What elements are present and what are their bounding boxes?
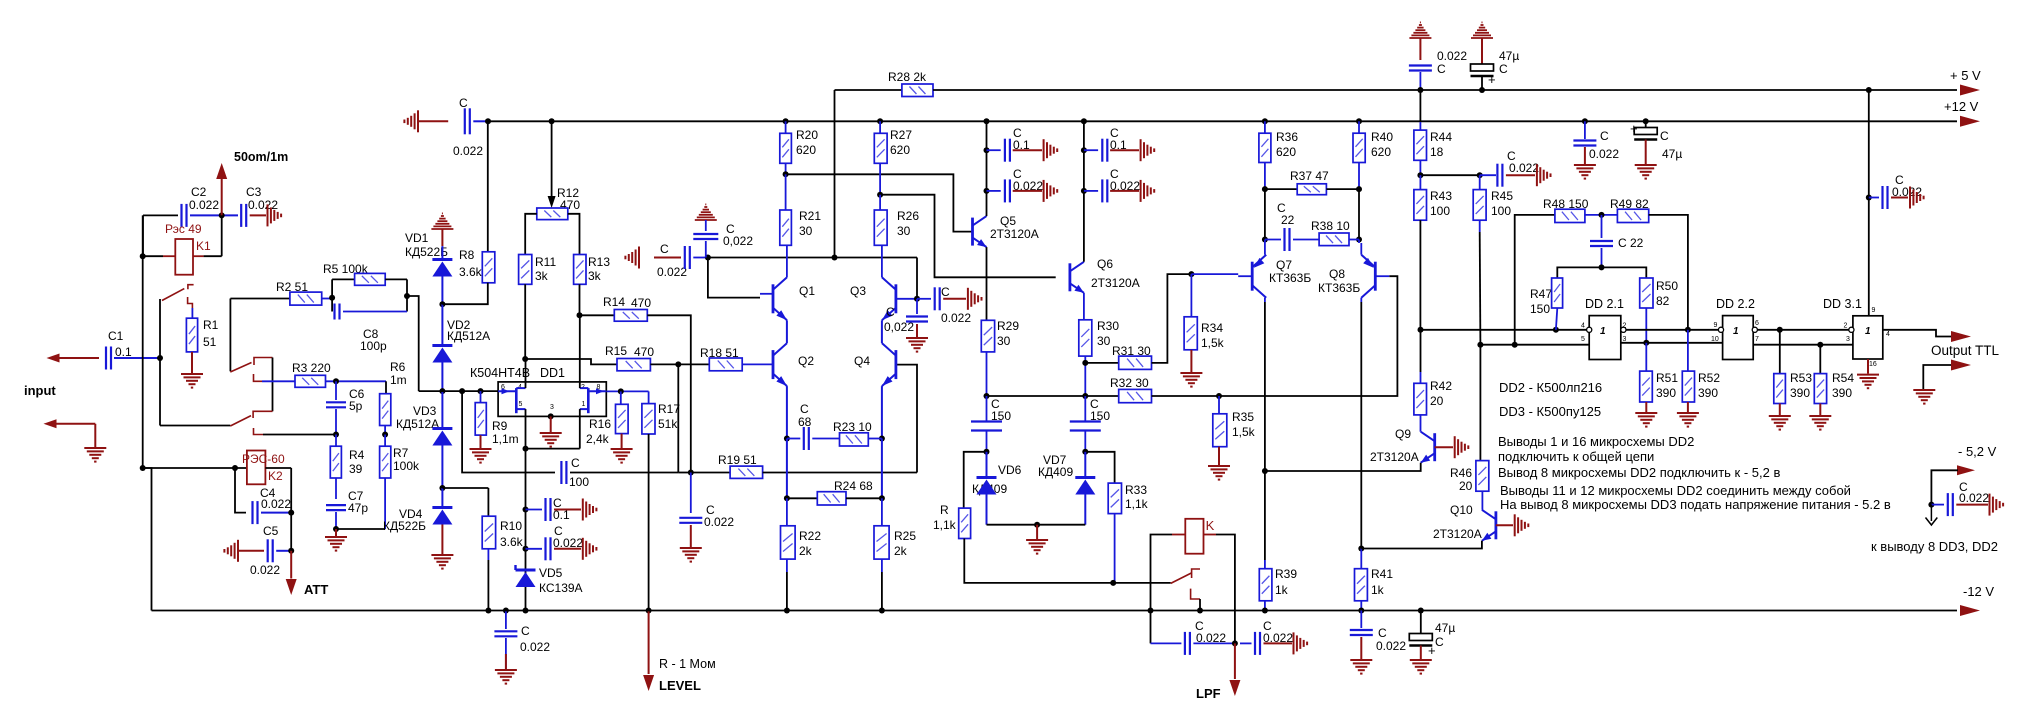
wire: [1264, 189, 1266, 239]
wire R6 top lead: [385, 381, 387, 393]
switch K1 lower contact: [188, 297, 193, 308]
svg-text:VD6: VD6: [998, 463, 1022, 477]
svg-text:R6: R6: [390, 360, 406, 374]
wire R8 top: [487, 121, 489, 252]
wire: [879, 163, 881, 194]
junction R39 bus: [1262, 608, 1268, 614]
wire R46 top: [1479, 345, 1481, 461]
svg-text:0,022: 0,022: [723, 234, 753, 248]
wire: [1190, 350, 1192, 372]
wire R8 bottom: [442, 283, 487, 304]
wire: [1265, 239, 1281, 241]
junction K switch bus: [1197, 608, 1203, 614]
switch K2 mid contact: [254, 374, 263, 381]
svg-text:30: 30: [799, 224, 813, 238]
wire: [276, 550, 291, 552]
shield ground C0.022 q5: [1044, 180, 1058, 202]
node C0.1 tap: [523, 507, 529, 513]
resistor R6: [380, 394, 391, 426]
node R11/R15: [522, 356, 528, 362]
svg-text:R15: R15: [605, 344, 627, 358]
transistor DD1 right FET: [580, 388, 606, 413]
wire: [786, 439, 788, 499]
node R9 top: [478, 388, 484, 394]
wire: [385, 278, 407, 280]
svg-text:C: C: [660, 242, 669, 256]
wire R20 node to Q5 base: [786, 174, 973, 231]
svg-text:51: 51: [203, 335, 217, 349]
svg-text:C: C: [1435, 635, 1444, 649]
svg-text:R50: R50: [1656, 279, 1678, 293]
wire Q5 emitter down: [986, 247, 988, 320]
svg-text:2T3120A: 2T3120A: [990, 227, 1039, 241]
wire: [1360, 637, 1362, 659]
transistor DD1 left FET: [498, 388, 525, 413]
svg-text:390: 390: [1832, 386, 1852, 400]
node Q7/R39/Q9 line: [1262, 468, 1268, 474]
svg-text:Q7: Q7: [1276, 258, 1292, 272]
diode VD7: [1075, 478, 1095, 495]
wire R15 node down: [677, 364, 679, 472]
capacitor C 0.022 top: [1409, 66, 1432, 71]
wire left vertical C2-K2: [142, 215, 144, 468]
junction Q6 rail: [1081, 118, 1087, 124]
arrow to DD supply: [1926, 505, 1938, 525]
ground below 47u: [1410, 660, 1432, 674]
shield ground C0.022 q6: [1141, 180, 1155, 202]
node R25/R24: [879, 495, 885, 501]
svg-text:5: 5: [519, 401, 523, 408]
wire: [1556, 308, 1557, 330]
-12V bottom bus: [152, 610, 1958, 612]
svg-text:R26: R26: [897, 209, 919, 223]
transistor Q1: [773, 277, 787, 320]
wire: [621, 434, 623, 448]
svg-text:1k: 1k: [1371, 583, 1385, 597]
wire: [1645, 121, 1647, 127]
svg-text:100: 100: [569, 475, 589, 489]
svg-text:0.022: 0.022: [704, 515, 734, 529]
capacitor C 0.022 below R41: [1350, 630, 1373, 635]
wire: [787, 497, 817, 499]
wire: [881, 439, 883, 499]
ground below R9: [470, 449, 492, 463]
wire Q4 base feed: [896, 365, 917, 473]
node R34 top: [1188, 271, 1194, 277]
ground below R53: [1769, 416, 1791, 430]
junction top cap +5V: [1417, 87, 1423, 93]
svg-text:3: 3: [550, 404, 554, 411]
wire R12 to R11: [525, 214, 537, 255]
arrowhead R12 tap: [548, 196, 556, 208]
wire: [1013, 190, 1042, 192]
wire to Q3 base node: [916, 258, 918, 299]
svg-text:C: C: [1378, 626, 1387, 640]
resistor R54: [1814, 374, 1826, 404]
wire: [690, 525, 692, 547]
wire: [526, 548, 543, 550]
node Q2 emitter/C68: [784, 436, 790, 442]
wire Q7 base: [1238, 275, 1252, 277]
off-page arrow input: [44, 419, 57, 428]
wire R18 to Q2 base: [742, 363, 773, 365]
wire: [114, 357, 160, 359]
wire: [1645, 343, 1647, 371]
wire Q9 emitter line: [1265, 463, 1421, 471]
svg-text:6: 6: [1755, 320, 1759, 327]
node C0.022 tap: [523, 546, 529, 552]
resistor R2: [290, 292, 322, 305]
svg-text:2T3120A: 2T3120A: [1433, 527, 1482, 541]
ground below R34: [1180, 373, 1202, 387]
wire Q10 base: [1496, 524, 1513, 526]
capacitor C 0.022 q6: [1102, 179, 1107, 202]
wire: [879, 195, 881, 210]
wire: [1515, 344, 1590, 346]
svg-text:620: 620: [1371, 145, 1391, 159]
wire to R3: [262, 380, 295, 382]
wire: [620, 391, 622, 404]
resistor R15: [617, 359, 650, 371]
svg-text:0.022: 0.022: [250, 563, 280, 577]
wire: [705, 220, 707, 231]
junction 47u rail2: [1643, 118, 1649, 124]
junction C 0.022 rail2: [1582, 118, 1588, 124]
svg-text:C: C: [941, 285, 950, 299]
wire to R2: [230, 298, 290, 300]
junction R53: [1777, 327, 1783, 333]
node VD7 top: [1082, 449, 1088, 455]
wire: [678, 472, 691, 474]
wire: [1479, 175, 1481, 189]
wire DD1 pin1 down: [579, 409, 581, 449]
svg-text:620: 620: [890, 143, 910, 157]
wire pin7 line: [1753, 344, 1853, 346]
svg-text:R43: R43: [1430, 189, 1452, 203]
svg-text:1: 1: [1733, 326, 1739, 337]
svg-text:1: 1: [1600, 326, 1606, 337]
svg-text:C: C: [459, 96, 468, 110]
svg-text:390: 390: [1656, 386, 1676, 400]
wire: [335, 381, 337, 400]
capacitor 47µ below bus: [1409, 634, 1432, 646]
svg-text:КД522Б: КД522Б: [383, 519, 426, 533]
wire R27 node to Q6 base: [880, 195, 1056, 278]
resistor R 1,1k: [959, 508, 971, 538]
svg-text:C: C: [800, 402, 809, 416]
svg-text:1: 1: [582, 401, 586, 408]
wire: [94, 424, 96, 447]
switch K2 armature upper: [230, 363, 251, 373]
wire: [441, 363, 443, 392]
capacitor C 0,022 cone: [693, 234, 718, 239]
wire: [554, 548, 581, 550]
wire: [785, 121, 787, 133]
resistor R30: [1079, 320, 1092, 356]
wire: [193, 255, 204, 257]
wire K left: [1151, 535, 1173, 644]
svg-text:+: +: [1428, 643, 1436, 658]
resistor R12: [537, 208, 568, 220]
wire: [1360, 549, 1362, 569]
wire: [1585, 214, 1618, 216]
resistor R32: [1119, 389, 1152, 402]
node R22/R24: [784, 495, 790, 501]
wire Q2 emitter down: [786, 386, 788, 438]
wire Q7 collector stub: [1264, 298, 1266, 302]
switch K lower contact: [1191, 589, 1200, 599]
ground below bus cap left: [495, 670, 517, 684]
resistor R10: [482, 516, 495, 549]
transistor Q9: [1421, 432, 1435, 463]
wire: [1358, 121, 1360, 133]
wire: [987, 190, 1001, 192]
wire: [335, 409, 337, 435]
ground DD1 pin3: [540, 433, 562, 447]
wire to R 1,1k: [964, 452, 987, 508]
wire to R39: [1264, 471, 1266, 560]
svg-text:DD 3.1: DD 3.1: [1823, 297, 1862, 311]
wire: [1420, 646, 1422, 660]
svg-text:R: R: [940, 503, 949, 517]
wire: [1358, 163, 1360, 190]
wire: [1349, 239, 1359, 241]
svg-text:R35: R35: [1232, 410, 1254, 424]
svg-text:R44: R44: [1430, 130, 1452, 144]
svg-text:R28 2k: R28 2k: [888, 70, 927, 84]
svg-text:100k: 100k: [393, 459, 420, 473]
wire: [335, 529, 337, 536]
wire Q7 collector down: [1264, 302, 1266, 471]
svg-text:C3: C3: [246, 185, 262, 199]
wire: [343, 311, 407, 313]
svg-text:VD3: VD3: [413, 404, 437, 418]
wire: [986, 431, 988, 452]
wire Q1 base: [708, 258, 760, 298]
wire: [550, 416, 552, 432]
wire: [1779, 404, 1781, 416]
svg-text:КТ363Б: КТ363Б: [1318, 281, 1360, 295]
wire R32 to Q8 base: [1219, 276, 1397, 396]
wire R53 top: [1779, 330, 1781, 374]
wire: [916, 299, 918, 314]
wire C4 left: [235, 468, 246, 513]
wire C100 line right: [570, 472, 678, 474]
IC DD2.2 box: [1723, 316, 1754, 360]
wire R12 tap: [551, 121, 553, 196]
wire: [987, 149, 1001, 151]
junction K1 left: [140, 253, 146, 259]
capacitor C 0.022 q5: [1005, 179, 1010, 202]
wire: [1264, 163, 1266, 190]
resistor R37: [1297, 184, 1326, 195]
svg-text:9: 9: [1872, 307, 1876, 314]
wire: [1152, 395, 1220, 397]
wire: [1218, 396, 1220, 414]
node C6/R4: [333, 432, 339, 438]
capacitor C 0.022 rail2: [1573, 141, 1596, 146]
capacitor C5: [268, 539, 273, 562]
wire Q8 base stub: [1375, 275, 1389, 277]
wire R15 to R18: [650, 363, 709, 365]
wire: [1204, 534, 1217, 536]
chassis ground above C 0,022: [695, 204, 717, 220]
svg-text:K: K: [1206, 518, 1215, 533]
resistor R53: [1774, 374, 1786, 404]
wire loop right: [406, 279, 408, 311]
wire loop left: [331, 279, 333, 311]
wire: [1687, 330, 1689, 371]
svg-text:0.022: 0.022: [1509, 161, 1539, 175]
node R15/R18/C100: [675, 361, 681, 367]
node VD3/VD4/R10: [439, 485, 445, 491]
svg-text:+12 V: +12 V: [1944, 99, 1979, 114]
junction R40 rail: [1356, 118, 1362, 124]
junction R49/R52: [1685, 327, 1691, 333]
node C5/ATT: [288, 548, 294, 554]
wire: [480, 391, 482, 403]
capacitor C6: [326, 402, 346, 407]
svg-text:Выводы 11 и 12 микросхемы DD2: Выводы 11 и 12 микросхемы DD2 соединить …: [1500, 483, 1851, 498]
wire: [1265, 188, 1297, 190]
transistor Q3: [882, 277, 896, 320]
svg-text:51k: 51k: [658, 417, 678, 431]
diode VD1: [432, 260, 452, 277]
svg-text:18: 18: [1430, 145, 1444, 159]
svg-text:+ 5 V: + 5 V: [1950, 68, 1981, 83]
wire: [1084, 149, 1098, 151]
wire Q1/Q3 base line: [708, 257, 917, 259]
pin bubble DD2.1 in: [1587, 327, 1592, 332]
wire R49 to pin2 line: [1649, 215, 1688, 330]
svg-text:0.022: 0.022: [1959, 491, 1989, 505]
wire K right: [1216, 535, 1235, 644]
svg-text:C2: C2: [191, 185, 207, 199]
wire: [1419, 160, 1421, 175]
capacitor C 150 left: [971, 422, 1002, 431]
resistor R8: [482, 252, 495, 283]
node DD1 pin3: [548, 413, 554, 419]
svg-text:3: 3: [1846, 336, 1850, 343]
wire: [554, 509, 581, 511]
off-page arrow +5V: [1960, 85, 1980, 96]
svg-text:R10: R10: [500, 519, 522, 533]
junction R25 bus: [879, 608, 885, 614]
off-page arrow output ref: [1951, 360, 1971, 371]
wire: [1240, 642, 1252, 644]
svg-text:R54: R54: [1832, 371, 1854, 385]
wire: [384, 478, 386, 529]
junction R54: [1817, 342, 1823, 348]
node R44/R43/R45: [1417, 172, 1423, 178]
wire: [1481, 38, 1483, 64]
svg-text:C: C: [1499, 62, 1508, 76]
svg-text:R52: R52: [1698, 371, 1720, 385]
wire to Q7 base: [1191, 273, 1238, 275]
wire: [336, 528, 385, 530]
resistor R45: [1473, 190, 1486, 221]
IC DD1 box: [498, 382, 606, 417]
wire: [441, 304, 443, 345]
wire +5V to R28: [835, 89, 902, 91]
svg-text:R4: R4: [349, 448, 365, 462]
svg-text:1: 1: [1865, 326, 1871, 337]
wire: [705, 241, 707, 258]
svg-text:0.022: 0.022: [453, 144, 483, 158]
wire R11 bottom: [524, 284, 526, 359]
switch K1 armature: [162, 289, 184, 301]
wire: [1479, 220, 1481, 232]
junction R10 on bus: [485, 608, 491, 614]
wire DD1 input line: [419, 390, 498, 392]
node C0.1 q6: [1081, 147, 1087, 153]
wire DD3 pin9: [1868, 90, 1870, 316]
wire Q5 collector: [986, 121, 988, 216]
svg-text:DD1: DD1: [540, 366, 565, 380]
wire: [290, 551, 292, 579]
node R6/R7: [382, 432, 388, 438]
svg-text:1,5k: 1,5k: [1201, 336, 1225, 350]
wire: [163, 255, 175, 257]
wire: [1420, 174, 1479, 176]
node C4/C5: [288, 510, 294, 516]
svg-text:K2: K2: [268, 469, 283, 483]
wire: [648, 391, 650, 403]
resistor R25: [874, 526, 889, 559]
wire: [1085, 362, 1118, 364]
wire: [441, 391, 443, 428]
shield ground at C 0.022 q1line: [625, 247, 639, 269]
node R13/R14: [577, 312, 583, 318]
resistor R51: [1640, 371, 1653, 402]
wire: [261, 512, 291, 514]
wire: [1084, 495, 1086, 525]
svg-text:100: 100: [1430, 204, 1450, 218]
junction R12 rail: [549, 118, 555, 124]
capacitor C 22 q7: [1285, 228, 1290, 251]
off-page arrow LEVEL: [643, 675, 654, 691]
svg-text:3.6k: 3.6k: [500, 535, 524, 549]
capacitor C 0.022 lpf left: [1185, 632, 1190, 655]
wire Q8 emitter up: [1360, 243, 1362, 255]
switch K armature: [1171, 573, 1192, 584]
svg-text:39: 39: [349, 462, 363, 476]
wire Q1 collector: [786, 245, 788, 277]
resistor R41: [1355, 569, 1368, 601]
wire: [290, 468, 292, 513]
svg-text:Q2: Q2: [798, 354, 814, 368]
svg-text:R39: R39: [1275, 567, 1297, 581]
node VD2/VD3 on DD1 line: [439, 388, 445, 394]
junction bus cap left: [503, 608, 509, 614]
wire: [1956, 504, 1988, 506]
wire Q1 emitter to Q2: [786, 320, 788, 343]
resistor R44: [1414, 130, 1427, 160]
resistor R3: [295, 375, 326, 387]
ground below VD4: [431, 555, 453, 569]
wire R13 bottom: [579, 284, 581, 315]
svg-text:30: 30: [1097, 334, 1111, 348]
wire: [441, 488, 443, 507]
pin bubble DD2.2 out: [1752, 327, 1757, 332]
wire: [1264, 601, 1266, 611]
node R5/C8 right: [404, 293, 410, 299]
wire to R47: [1557, 267, 1601, 278]
wire: [916, 324, 918, 337]
wire: [335, 435, 337, 447]
svg-text:0.022: 0.022: [1437, 49, 1467, 63]
wire R44 top: [1419, 90, 1421, 122]
